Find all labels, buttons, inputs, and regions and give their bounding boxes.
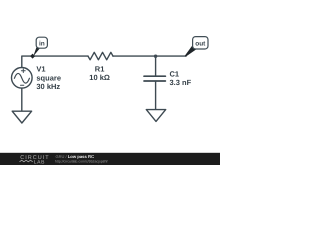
wire resistor to out [113,55,186,57]
voltage source V1 circle [11,68,32,89]
svg-text:30 kHz: 30 kHz [36,82,60,91]
capacitor C1 top lead wire [155,56,157,76]
flag label out [185,37,208,57]
svg-text:3.3 nF: 3.3 nF [170,78,192,87]
capacitor C1 bottom lead wire [155,82,157,109]
svg-text:V1: V1 [36,65,45,74]
svg-text:LAB: LAB [34,160,45,166]
flag label in [30,37,47,58]
svg-text:out: out [195,40,206,47]
svg-text:GRU / Low pass RC: GRU / Low pass RC [56,154,95,159]
svg-text:R1: R1 [95,64,105,73]
V1 plus sign [21,69,25,73]
svg-text:http://circuitlab.com/c/952acj: http://circuitlab.com/c/952acjsp8hf [55,159,108,163]
ground at V1 [12,111,31,123]
V1 minus sign [21,84,24,86]
svg-text:C1: C1 [170,69,180,78]
capacitor C1 plates [144,76,165,81]
ground at C1 [146,110,165,122]
watermark bar [0,153,220,165]
wire V1 bottom to ground [21,88,23,111]
svg-text:in: in [39,40,45,47]
V1 sine symbol [14,73,29,83]
svg-text:square: square [36,73,61,82]
svg-text:10 kΩ: 10 kΩ [89,73,110,82]
resistor R1 [88,52,113,60]
junction node dot [154,55,157,58]
watermark CircuitLab logo [20,155,50,166]
wire V1 top to resistor [22,56,88,68]
